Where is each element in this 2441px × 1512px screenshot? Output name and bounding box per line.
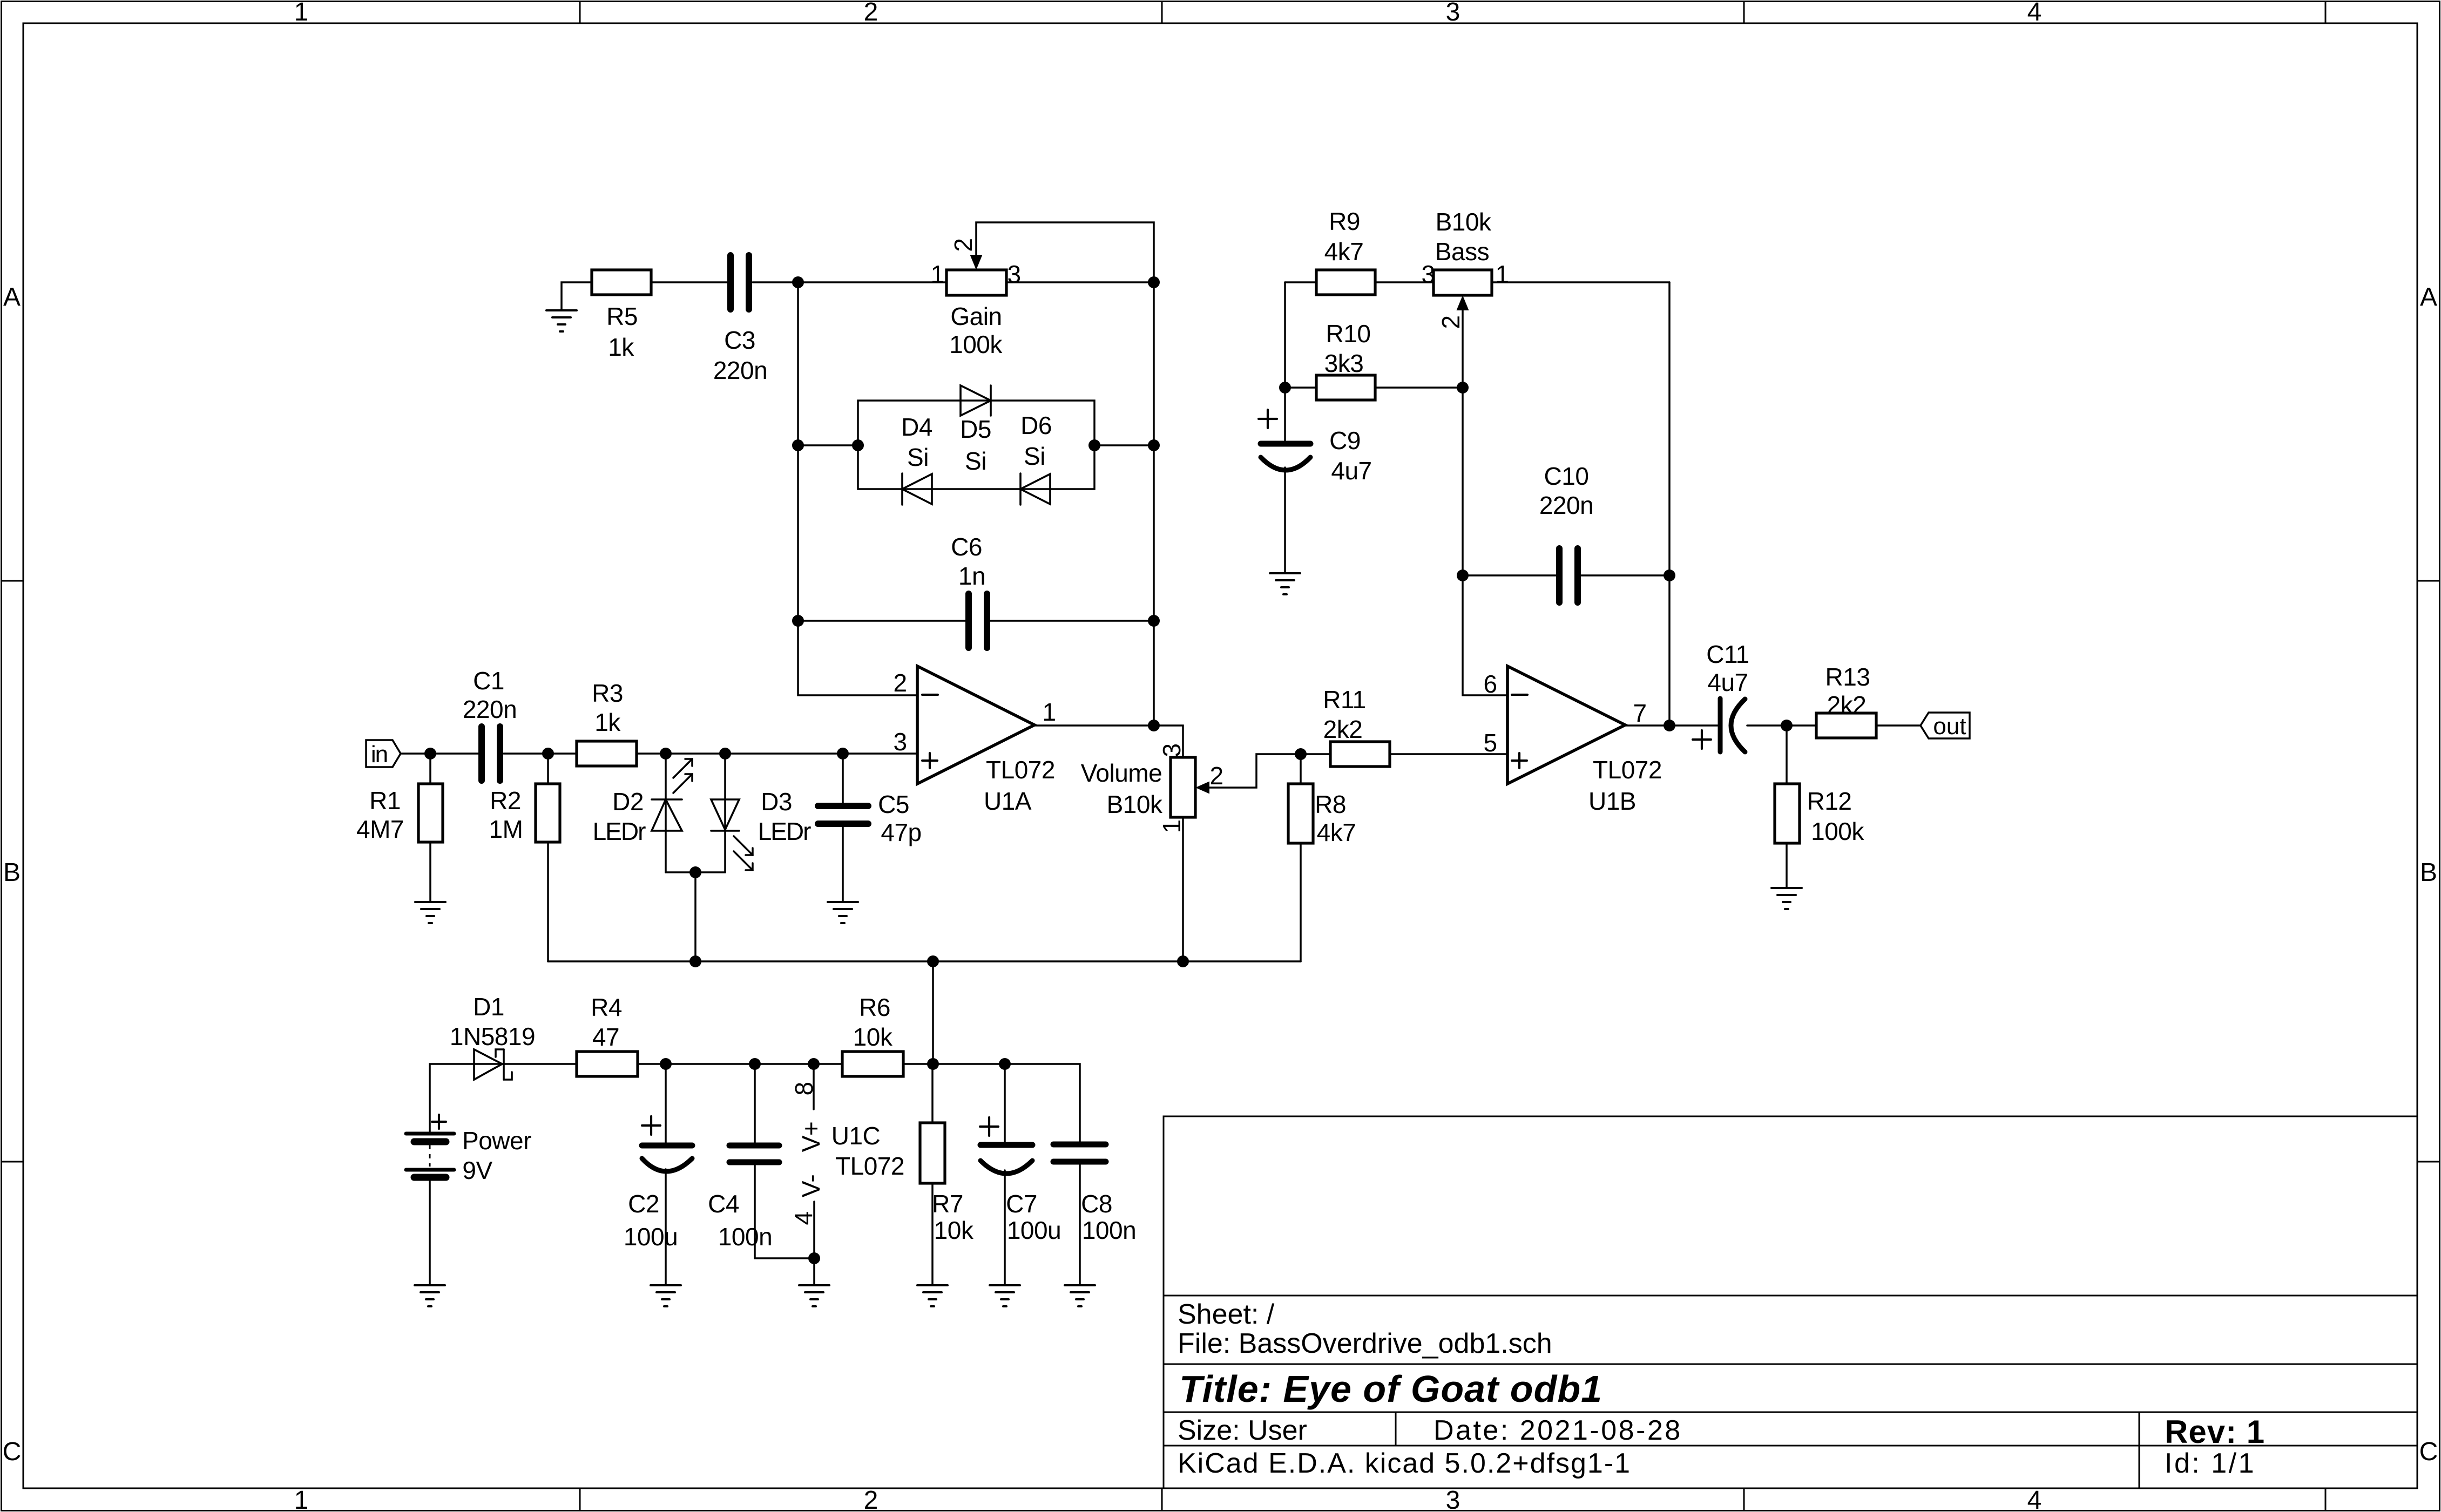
battery Power 9V [406, 1134, 454, 1177]
svg-text:U1C: U1C [831, 1122, 881, 1150]
wire C6 right [990, 620, 1154, 622]
svg-text:1: 1 [930, 260, 944, 288]
svg-text:R8: R8 [1315, 790, 1346, 818]
svg-text:C2: C2 [628, 1190, 659, 1218]
svg-text:A: A [2420, 283, 2437, 311]
capacitor C2 100u polarized [642, 1143, 692, 1149]
svg-text:D6: D6 [1020, 411, 1052, 439]
wire C5 stubs [842, 754, 844, 804]
wire Volume wiper to R11 node [1209, 754, 1330, 788]
wire U1C V- pin stub [813, 1202, 815, 1258]
svg-text:R1: R1 [369, 786, 401, 815]
wire R1 stubs [429, 754, 431, 784]
svg-text:C9: C9 [1329, 426, 1361, 455]
svg-text:C10: C10 [1544, 462, 1589, 490]
wire C1 to R3 [504, 752, 577, 755]
svg-text:100u: 100u [1007, 1216, 1061, 1244]
wire Gain pin3 to right rail [1006, 281, 1154, 283]
wire right rail B10k to U1B out [1668, 282, 1671, 726]
wire C3 to Gain pin1 [753, 281, 946, 283]
svg-text:2: 2 [864, 0, 878, 26]
wire left rail R9 C9 [1284, 282, 1286, 441]
svg-text:Si: Si [965, 447, 986, 475]
wire diode network left link [798, 444, 858, 446]
capacitor C3 [731, 255, 749, 309]
svg-text:LEDr: LEDr [593, 817, 646, 845]
ground at R1 [415, 902, 445, 923]
svg-text:100k: 100k [1811, 817, 1864, 845]
svg-text:1: 1 [1042, 698, 1056, 726]
resistor R2 1M [536, 784, 560, 842]
capacitor C7 100u polarized [981, 1142, 1032, 1148]
diode D6 Si [1020, 473, 1050, 505]
svg-text:5: 5 [1483, 729, 1497, 757]
capacitor C6 1n [969, 594, 987, 648]
wire C9 to ground [1284, 467, 1286, 573]
wire U1C V+ pin stub [813, 1064, 815, 1109]
ground at R12 [1771, 888, 1802, 909]
svg-text:TL072: TL072 [986, 756, 1055, 784]
capacitor C1 220n [482, 727, 500, 781]
resistor R8 4k7 [1288, 784, 1313, 843]
capacitor C4 100n [729, 1145, 779, 1162]
wire R2 stubs [547, 754, 549, 784]
resistor R9 4k7 [1316, 270, 1375, 295]
wire C10 right [1581, 574, 1669, 577]
wire battery to ground [429, 1181, 431, 1285]
wire R10 right [1375, 387, 1463, 389]
ground at U1C V- [799, 1285, 829, 1306]
svg-text:Rev: 1: Rev: 1 [2165, 1414, 2265, 1450]
svg-text:3: 3 [1421, 260, 1435, 288]
resistor R11 2k2 [1330, 742, 1390, 767]
wire R11 to U1B pin5 [1390, 753, 1507, 755]
svg-text:2: 2 [1437, 315, 1465, 329]
wire R3 to U1A pin3 [637, 752, 917, 755]
wire Bass pin1 to right rail [1492, 281, 1669, 283]
svg-text:R12: R12 [1807, 787, 1852, 815]
svg-text:9V: 9V [462, 1156, 492, 1184]
node in port flag [366, 740, 401, 767]
svg-text:B10k: B10k [1436, 208, 1492, 236]
svg-text:100k: 100k [949, 330, 1003, 358]
wire C4 stubs [754, 1064, 756, 1143]
svg-text:LEDr: LEDr [758, 817, 811, 845]
svg-text:3: 3 [1158, 743, 1186, 757]
op-amp U1B [1507, 666, 1625, 784]
svg-text:B: B [2420, 858, 2437, 887]
svg-text:C: C [3, 1438, 22, 1466]
wire R4 to R6 [638, 1063, 842, 1065]
svg-text:R4: R4 [591, 993, 622, 1021]
svg-text:R7: R7 [932, 1190, 963, 1218]
potentiometer Volume B10k [1171, 757, 1195, 817]
wire Bass wiper stub [1462, 310, 1464, 388]
svg-text:3k3: 3k3 [1324, 349, 1364, 377]
wire Gain wiper feedback top [976, 222, 1154, 282]
svg-text:Volume: Volume [1081, 759, 1162, 787]
svg-text:6: 6 [1483, 670, 1497, 698]
svg-text:B10k: B10k [1107, 790, 1163, 818]
wire in port to C1 [401, 752, 478, 755]
wire R8 stubs [1300, 754, 1302, 784]
wire C10 left [1463, 574, 1556, 577]
svg-text:3: 3 [1446, 0, 1460, 26]
svg-text:Power: Power [462, 1127, 531, 1155]
svg-text:C11: C11 [1706, 640, 1749, 668]
diode D3 LEDr [711, 799, 739, 831]
wire R9 left [1285, 281, 1316, 283]
svg-text:47: 47 [592, 1023, 619, 1051]
wire diode network right link [1094, 444, 1154, 446]
wire U1B output to C11 [1625, 724, 1718, 727]
wire R5 to C3 [651, 281, 727, 283]
ground at C8 [1065, 1285, 1095, 1306]
svg-text:4u7: 4u7 [1707, 668, 1748, 696]
svg-text:3: 3 [1007, 260, 1020, 288]
resistor R7 10k [920, 1123, 945, 1183]
svg-text:3: 3 [893, 728, 907, 756]
wire LED pair to bias bus [694, 872, 697, 961]
svg-text:1k: 1k [608, 333, 634, 361]
wire C2 stubs [665, 1064, 667, 1143]
svg-text:4: 4 [789, 1211, 817, 1225]
svg-text:1: 1 [1495, 260, 1509, 288]
wire R13 to out port [1876, 724, 1921, 727]
svg-text:R6: R6 [859, 993, 890, 1021]
svg-text:C4: C4 [708, 1190, 739, 1218]
wire R9 to Bass pin3 [1375, 281, 1434, 283]
svg-text:2: 2 [893, 669, 907, 697]
diode D4 Si [902, 473, 932, 505]
svg-text:C: C [2419, 1438, 2438, 1466]
diode D2 LEDr [652, 799, 682, 831]
svg-text:2k2: 2k2 [1323, 715, 1363, 743]
resistor R12 100k [1775, 784, 1800, 843]
wire U1A output [1034, 724, 1154, 727]
wire Volume pin1 to bus [1182, 817, 1184, 961]
wire C6 left [798, 620, 965, 622]
svg-text:D2: D2 [612, 788, 644, 816]
svg-text:4: 4 [2027, 0, 2042, 26]
wire D2 branch [665, 754, 667, 872]
svg-text:2k2: 2k2 [1827, 691, 1867, 719]
resistor R5 [592, 270, 651, 295]
svg-text:4: 4 [2027, 1486, 2042, 1512]
wire right feedback rail [1153, 282, 1155, 726]
svg-text:TL072: TL072 [1593, 756, 1662, 784]
svg-text:D1: D1 [473, 993, 504, 1021]
svg-text:R13: R13 [1825, 663, 1870, 691]
svg-text:1k: 1k [594, 708, 621, 736]
capacitor C11 4u7 polarized [1718, 699, 1723, 752]
svg-text:File: BassOverdrive_odb1.sch: File: BassOverdrive_odb1.sch [1178, 1328, 1552, 1359]
svg-text:1: 1 [294, 1486, 309, 1512]
svg-text:47p: 47p [881, 818, 921, 846]
svg-text:7: 7 [1633, 699, 1646, 727]
svg-text:V+: V+ [797, 1122, 825, 1152]
svg-text:2: 2 [864, 1486, 878, 1512]
svg-text:D4: D4 [901, 413, 932, 441]
wire C7 stubs [1004, 1064, 1006, 1142]
svg-text:A: A [3, 283, 21, 311]
svg-text:R5: R5 [606, 302, 638, 330]
svg-text:1n: 1n [958, 562, 985, 590]
TITLE BLOCK [1164, 1116, 2417, 1488]
op-amp U1A [917, 666, 1034, 784]
wire R12 stubs [1786, 726, 1788, 784]
svg-text:in: in [371, 741, 387, 768]
diode D5 Si [961, 385, 991, 416]
potentiometer Bass B10k [1434, 270, 1492, 295]
svg-text:100u: 100u [624, 1223, 678, 1251]
svg-text:V-: V- [797, 1175, 825, 1197]
wire left feedback rail [798, 282, 917, 695]
ground at R7 [917, 1285, 948, 1306]
potentiometer Gain 100k [946, 270, 1006, 295]
resistor R1 4M7 [418, 784, 443, 842]
svg-text:C3: C3 [724, 326, 755, 354]
wire R5 ground stub [562, 282, 592, 310]
svg-text:4u7: 4u7 [1331, 457, 1371, 485]
svg-text:R9: R9 [1329, 207, 1360, 235]
ground at R5 [546, 310, 577, 331]
svg-text:Date: 2021-08-28: Date: 2021-08-28 [1434, 1415, 1682, 1446]
svg-text:1: 1 [1158, 819, 1186, 833]
svg-text:4k7: 4k7 [1324, 238, 1364, 266]
wire diode network box [858, 401, 1094, 489]
capacitor C9 4u7 polarized [1261, 441, 1310, 447]
svg-text:C7: C7 [1006, 1190, 1037, 1218]
capacitor C8 100n [1053, 1144, 1106, 1162]
svg-text:3: 3 [1446, 1486, 1460, 1512]
ground at C5 [828, 902, 858, 923]
svg-text:Si: Si [1024, 442, 1045, 470]
svg-text:R10: R10 [1326, 320, 1371, 348]
svg-text:Size: User: Size: User [1178, 1415, 1307, 1446]
svg-text:4k7: 4k7 [1317, 818, 1356, 846]
svg-text:Id: 1/1: Id: 1/1 [2165, 1448, 2256, 1479]
ground at battery [415, 1285, 445, 1306]
wire mid rail to U1B pin6 [1463, 388, 1507, 695]
capacitor C5 47p [818, 806, 868, 824]
resistor R6 10k [842, 1052, 903, 1076]
svg-text:C6: C6 [951, 533, 982, 561]
svg-text:1N5819: 1N5819 [450, 1022, 535, 1050]
svg-text:KiCad E.D.A. kicad 5.0.2+dfsg: KiCad E.D.A. kicad 5.0.2+dfsg1-1 [1178, 1448, 1631, 1479]
wire D2 D3 bottom link [666, 871, 725, 873]
svg-text:C5: C5 [878, 790, 909, 818]
wire C8 lower stub [1079, 1164, 1081, 1285]
resistor R3 1k [577, 741, 637, 766]
svg-text:Gain: Gain [950, 302, 1002, 330]
svg-text:out: out [1933, 713, 1966, 740]
svg-text:R2: R2 [490, 786, 521, 815]
svg-text:100n: 100n [718, 1223, 772, 1251]
svg-text:220n: 220n [713, 356, 767, 384]
svg-text:4M7: 4M7 [356, 815, 404, 843]
svg-text:220n: 220n [463, 695, 517, 723]
wire bias bus [548, 960, 1301, 962]
wire R10 left [1285, 387, 1316, 389]
svg-text:1: 1 [294, 0, 309, 26]
ground at C7 [990, 1285, 1020, 1306]
svg-text:C1: C1 [473, 667, 504, 695]
svg-text:10k: 10k [934, 1216, 974, 1244]
wire R6 to C8 [903, 1064, 1080, 1142]
svg-text:220n: 220n [1539, 491, 1593, 519]
resistor R10 3k3 [1316, 375, 1375, 400]
svg-text:1M: 1M [489, 815, 523, 843]
wire C11 to R13 [1747, 724, 1816, 727]
svg-text:U1B: U1B [1588, 787, 1636, 815]
svg-text:Si: Si [907, 443, 929, 471]
svg-text:B: B [3, 858, 21, 887]
svg-text:Title: Eye of Goat odb1: Title: Eye of Goat odb1 [1179, 1368, 1602, 1410]
svg-text:U1A: U1A [984, 787, 1032, 815]
wire D3 branch [724, 754, 726, 872]
svg-text:C8: C8 [1081, 1190, 1112, 1218]
svg-text:Bass: Bass [1435, 238, 1489, 266]
svg-text:R11: R11 [1323, 686, 1365, 714]
svg-text:D5: D5 [960, 415, 991, 443]
svg-text:TL072: TL072 [835, 1152, 904, 1180]
wire output to Volume pin3 [1154, 726, 1183, 757]
capacitor C10 220n [1559, 548, 1578, 602]
svg-text:100n: 100n [1082, 1216, 1136, 1244]
resistor R13 2k2 [1816, 713, 1876, 738]
svg-text:8: 8 [790, 1082, 818, 1095]
svg-text:10k: 10k [853, 1023, 893, 1051]
svg-text:D3: D3 [761, 788, 792, 816]
ground at C2 [651, 1285, 681, 1306]
diode D1 1N5819 schottky [474, 1049, 512, 1080]
svg-text:R3: R3 [592, 679, 623, 707]
svg-text:2: 2 [949, 238, 977, 252]
svg-text:2: 2 [1209, 762, 1223, 790]
wire R7 stubs [931, 1064, 934, 1123]
ground at C9 [1270, 573, 1300, 594]
node out port flag [1921, 713, 1970, 738]
wire battery to D1 [430, 1064, 577, 1132]
svg-text:Sheet: /: Sheet: / [1178, 1299, 1275, 1330]
resistor R4 47 [577, 1052, 638, 1076]
wire bias riser [932, 961, 934, 1064]
